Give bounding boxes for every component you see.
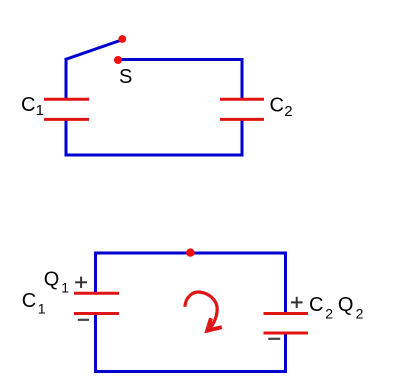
svg-text:Q: Q <box>338 294 354 316</box>
wire: right vertical (C2 bottom plate to bottom wire) <box>241 119 244 157</box>
capacitor C1 (top circuit, plates) <box>44 98 89 101</box>
minus sign (C2 bottom plate polarity) <box>268 338 280 340</box>
wire: right vertical lower (C2 bottom plate to bottom) <box>284 333 287 373</box>
svg-text:C: C <box>309 294 323 316</box>
capacitor C2 (top circuit, plates) <box>220 98 264 101</box>
plus sign (C2 top plate polarity) <box>291 297 303 308</box>
wire: top-right vertical (corner to C2 top plate) <box>241 58 244 99</box>
wire: top horizontal <box>94 252 287 255</box>
wire: left vertical lower (C1 bottom plate to bottom) <box>94 314 97 374</box>
plus sign (C1 top plate polarity) <box>75 277 87 288</box>
minus sign (C1 bottom plate polarity) <box>78 319 89 321</box>
svg-text:C: C <box>21 94 35 116</box>
svg-text:S: S <box>119 66 132 88</box>
capacitor C1 (bottom circuit, plates) <box>74 292 119 295</box>
wire: left vertical upper (corner to C1 top plate) <box>94 252 97 293</box>
svg-text:1: 1 <box>61 280 69 296</box>
switch contact dot (fixed terminal) <box>114 56 122 64</box>
svg-text:1: 1 <box>36 102 44 119</box>
capacitor C2 (bottom circuit, plates) <box>264 312 309 315</box>
wire: right vertical upper (corner to C2 top plate) <box>284 252 287 314</box>
svg-text:Q: Q <box>44 269 60 291</box>
current direction arrow (clockwise) <box>185 292 222 331</box>
svg-text:2: 2 <box>284 103 292 120</box>
svg-text:C: C <box>22 290 36 312</box>
junction node dot <box>186 248 194 256</box>
wire: left vertical (C1 bottom plate to bottom wire) <box>65 119 68 157</box>
switch contact dot (blade end) <box>118 35 126 43</box>
wire: top-left vertical (corner to C1 top plate) <box>65 58 68 99</box>
svg-text:1: 1 <box>38 301 46 317</box>
wire: bottom horizontal <box>94 370 287 373</box>
wire: bottom horizontal <box>65 154 244 157</box>
svg-text:2: 2 <box>325 306 333 322</box>
svg-text:C: C <box>270 95 284 117</box>
svg-text:2: 2 <box>356 306 364 322</box>
wire: top horizontal <box>118 58 244 61</box>
wire: switch arm (diagonal blade) <box>65 40 122 60</box>
